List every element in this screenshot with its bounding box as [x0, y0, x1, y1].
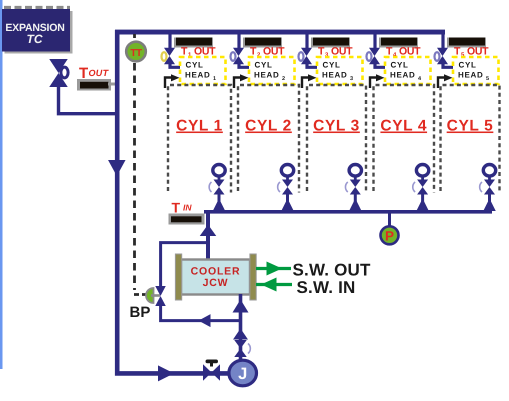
valve on expansion tank line	[49, 59, 68, 87]
cylinder 2 label T2 OUT	[250, 46, 285, 59]
cylinder 4 head box	[385, 57, 431, 84]
cylinder 3 T out sensor bar	[311, 38, 350, 48]
svg-text:CYL 3: CYL 3	[313, 118, 360, 135]
svg-text:HEAD: HEAD	[390, 71, 415, 80]
svg-text:TT: TT	[130, 48, 142, 59]
main left vertical pipe	[117, 30, 230, 373]
cylinder 1 head box	[180, 57, 226, 84]
cylinder 3 drain pipe	[354, 194, 357, 211]
cylinder 3 inlet drop pipe	[305, 33, 308, 49]
cylinder 2 flow arrow up	[281, 199, 294, 212]
JCW cooler body	[175, 254, 256, 300]
flow arrow down on main left pipe	[108, 160, 126, 176]
lower header pipe (cylinder supply manifold)	[204, 210, 492, 214]
cylinder 2 top valve	[231, 48, 245, 65]
cylinder 2 inlet arrow bracket	[234, 74, 249, 88]
cylinder 5 drain valve	[480, 180, 495, 195]
cylinder 4 flow arrow up	[416, 199, 429, 212]
cylinder 1 top valve	[162, 48, 176, 65]
svg-text:J: J	[238, 365, 247, 383]
flow arrow right on bottom pipe to pump	[158, 365, 174, 381]
svg-text:COOLER: COOLER	[191, 266, 241, 278]
cylinder 5 inlet arrow bracket	[438, 74, 453, 88]
cylinder 5 drain pipe	[488, 194, 491, 211]
flow arrow up into cooler	[233, 300, 249, 313]
svg-text:S.W. IN: S.W. IN	[297, 278, 356, 297]
pressure gauge P	[381, 226, 399, 244]
svg-text:HEAD: HEAD	[458, 71, 483, 80]
top manifold pipe	[115, 30, 445, 35]
svg-text:HEAD: HEAD	[254, 71, 279, 80]
cylinder 2 T out sensor bar	[243, 38, 282, 48]
cylinder 4 dashed outline box	[374, 85, 435, 193]
cylinder 3 top valve	[299, 48, 313, 65]
cylinder 1 label T1 OUT	[181, 46, 216, 59]
cylinder 1 drain handwheel	[213, 165, 225, 181]
cylinder 4 inlet drop pipe	[373, 33, 376, 49]
cylinder 4 inlet arrow bracket	[370, 74, 385, 88]
svg-text:HEAD: HEAD	[322, 71, 347, 80]
bypass valve actuator (green)	[146, 288, 160, 303]
pipe pump to cooler	[239, 294, 243, 362]
cylinder 3 drain handwheel	[349, 165, 361, 181]
signal line TT to BP valve	[133, 63, 136, 290]
temperature sensor T OUT label	[79, 65, 110, 82]
temperature sensor T OUT bar	[77, 79, 117, 91]
svg-text:CYL 1: CYL 1	[176, 118, 223, 135]
cylinder 5 dashed outline box	[441, 85, 500, 193]
cylinder 1 drain pipe	[218, 194, 221, 211]
cylinder 5 pipe into head	[443, 63, 453, 67]
cylinder 2 head box	[249, 57, 295, 84]
page left border line	[0, 0, 3, 369]
cylinder 1 flow arrow up	[213, 199, 226, 212]
pipe header down to cooler	[206, 212, 210, 260]
cylinder 4 label T4 OUT	[386, 46, 421, 59]
cylinder 4 top valve	[367, 48, 381, 65]
temperature transmitter TT	[126, 42, 146, 62]
svg-text:3: 3	[350, 76, 353, 82]
cylinder 3 inlet arrow bracket	[302, 74, 317, 88]
svg-text:OUT: OUT	[89, 68, 110, 78]
cylinder 5 label T5 OUT	[454, 46, 489, 59]
bypass valve BP	[155, 286, 166, 296]
svg-text:JCW: JCW	[203, 277, 229, 289]
cylinder 4 drain valve	[413, 180, 428, 195]
cylinder 3 label T3 OUT	[318, 46, 353, 59]
pressure gauge stem	[388, 213, 391, 226]
svg-text:CYL: CYL	[255, 60, 273, 69]
svg-text:BP: BP	[130, 304, 151, 321]
pump suction valve	[203, 360, 220, 381]
svg-text:1: 1	[213, 76, 216, 82]
svg-text:CYL: CYL	[186, 60, 204, 69]
cylinder 1 T out sensor bar	[174, 38, 213, 48]
bypass pipe lower	[161, 303, 240, 321]
svg-text:CYL: CYL	[323, 60, 341, 69]
cylinder 2 drain valve	[278, 180, 293, 195]
svg-text:P: P	[385, 228, 394, 243]
svg-text:5: 5	[486, 76, 489, 82]
cylinder 5 top valve	[435, 48, 449, 65]
cylinder 5 head box	[453, 57, 499, 84]
temperature sensor T IN label	[172, 200, 193, 216]
svg-text:2: 2	[282, 76, 285, 82]
svg-text:CYL 2: CYL 2	[245, 118, 292, 135]
cylinder 3 pipe into head	[307, 63, 317, 67]
svg-text:CYL 5: CYL 5	[447, 118, 494, 135]
cylinder 5 flow arrow up	[483, 199, 496, 212]
expansion tank TC	[2, 9, 73, 54]
flow arrow left on bypass	[199, 314, 211, 327]
dashed outline above expansion tank	[4, 6, 70, 9]
cylinder 1 inlet arrow bracket	[165, 74, 180, 88]
signal line corner to BP	[134, 293, 147, 296]
cylinder 4 pipe into head	[375, 63, 385, 67]
cylinder 1 inlet drop pipe	[168, 33, 171, 49]
cylinder 4 T out sensor bar	[379, 38, 418, 48]
svg-text:T: T	[172, 200, 181, 216]
pump discharge valve	[234, 340, 250, 357]
temperature sensor T IN bar	[169, 214, 205, 225]
cylinder 2 inlet drop pipe	[237, 33, 240, 49]
svg-text:IN: IN	[183, 203, 192, 213]
cylinder 3 dashed outline box	[307, 85, 366, 193]
cylinder 1 dashed outline box	[168, 85, 231, 193]
cylinder 2 pipe into head	[239, 63, 249, 67]
cylinder 1 drain valve	[209, 180, 224, 195]
cylinder 2 drain pipe	[286, 194, 289, 211]
svg-text:CYL 4: CYL 4	[380, 118, 427, 135]
JCW pump J	[229, 360, 257, 386]
cylinder 4 drain pipe	[421, 194, 424, 211]
cylinder 2 drain handwheel	[281, 165, 293, 181]
flow arrow up above pump valve	[233, 329, 248, 340]
flow arrow up to T IN	[200, 225, 217, 237]
cylinder 5 T out sensor bar	[447, 38, 486, 48]
cylinder 2 dashed outline box	[238, 85, 299, 193]
svg-text:CYL: CYL	[459, 60, 477, 69]
svg-text:TC: TC	[27, 32, 43, 46]
cylinder 3 head box	[317, 57, 363, 84]
signal stub above TT	[133, 34, 136, 41]
cylinder 3 drain valve	[345, 180, 360, 195]
svg-text:S.W. OUT: S.W. OUT	[293, 260, 372, 279]
bypass pipe upper	[161, 243, 208, 288]
pipe expansion valve to main line	[59, 86, 118, 114]
cylinder 5 inlet drop pipe	[441, 33, 444, 49]
cylinder 5 drain handwheel	[483, 165, 495, 181]
sea water outlet arrow	[256, 262, 291, 276]
svg-text:HEAD: HEAD	[185, 71, 210, 80]
cylinder 4 drain handwheel	[416, 165, 428, 181]
sea water inlet arrow	[256, 278, 292, 292]
svg-text:CYL: CYL	[391, 60, 409, 69]
cylinder 3 flow arrow up	[349, 199, 362, 212]
cylinder 1 pipe into head	[170, 63, 180, 67]
